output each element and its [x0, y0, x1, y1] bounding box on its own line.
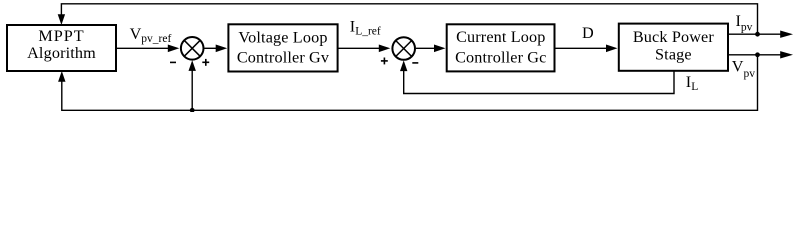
svg-text:Voltage Loop: Voltage Loop — [238, 28, 327, 46]
label D — [582, 24, 594, 42]
wire D: Gc output to Buck Power Stage — [555, 45, 618, 53]
junction dot on Vpv output — [755, 52, 760, 57]
wire Vpv_ref: MPPT output to summer S1 — [116, 45, 179, 53]
wire Vpv feedback branch up to S1 bottom — [189, 60, 196, 110]
label IL — [686, 73, 698, 93]
block Voltage Loop Controller Gv — [228, 24, 337, 71]
svg-text:Controller Gv: Controller Gv — [237, 48, 330, 66]
wire Ipv output from Buck Power Stage — [728, 31, 793, 38]
block Current Loop Controller Gc — [447, 24, 555, 71]
wire Ipv feedback: junction up, across top, down into MPPT top — [58, 4, 758, 34]
svg-text:Stage: Stage — [655, 46, 692, 64]
sign minus at S1 left input — [170, 61, 176, 63]
block MPPT Algorithm — [7, 25, 116, 71]
label Vpv_ref — [130, 25, 172, 45]
svg-text:Controller Gc: Controller Gc — [455, 49, 546, 67]
wire Vpv output from Buck Power Stage — [728, 51, 793, 58]
wire S2 output to Current Loop Controller — [416, 45, 446, 53]
svg-text:Current Loop: Current Loop — [456, 28, 545, 46]
junction dot on bottom Vpv feedback at S1 branch — [190, 108, 195, 113]
junction dot on Ipv output — [755, 32, 760, 37]
summing junction S2 — [392, 37, 415, 60]
block Buck Power Stage — [619, 24, 728, 71]
label IL_ref — [350, 17, 381, 37]
svg-text:Algorithm: Algorithm — [27, 44, 96, 62]
svg-text:Buck Power: Buck Power — [633, 28, 715, 46]
label Ipv — [736, 12, 753, 34]
sign minus at S2 bottom input — [412, 62, 418, 64]
summing junction S1 — [181, 37, 204, 60]
wire IL_ref: Gv output to summer S2 — [338, 45, 390, 53]
wire S1 output to Voltage Loop Controller — [205, 45, 228, 53]
wire Vpv feedback: junction down, across bottom, up into MPPT bottom — [58, 55, 757, 111]
wire IL feedback: Buck bottom down, across, up into S2 bottom — [400, 60, 674, 93]
sign plus at S2 left input — [381, 58, 388, 65]
label Vpv — [732, 58, 755, 80]
svg-text:MPPT: MPPT — [38, 27, 84, 45]
svg-text:D: D — [582, 24, 594, 42]
sign plus at S1 bottom input — [202, 59, 209, 66]
